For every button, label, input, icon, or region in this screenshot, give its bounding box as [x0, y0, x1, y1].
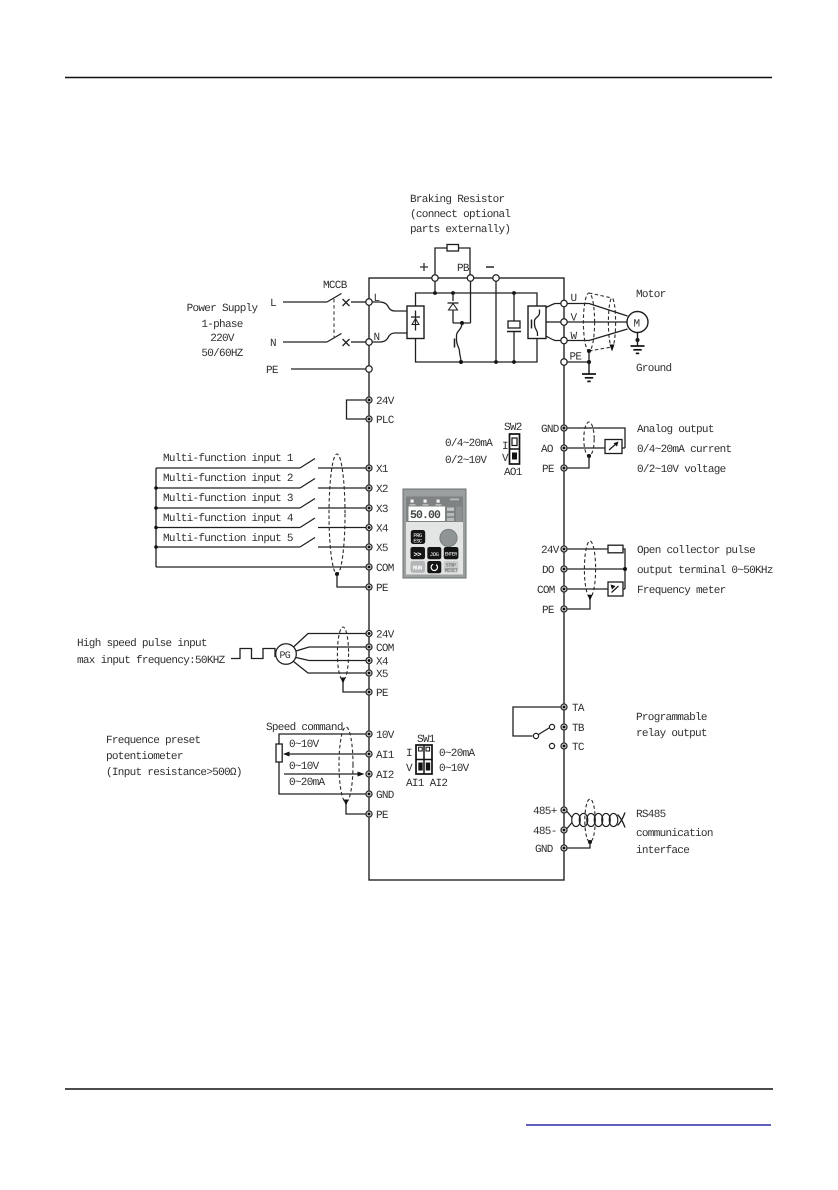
rectifier D1 box	[407, 306, 424, 339]
potentiometer wiper arrow	[283, 752, 290, 757]
wire 24V-PLC jumper	[347, 400, 366, 419]
wire wiper to AI1	[288, 753, 366, 755]
wire input bus	[155, 468, 157, 567]
svg-text:Motor: Motor	[636, 289, 666, 301]
svg-text:24V: 24V	[376, 630, 395, 642]
terminal V	[561, 319, 567, 325]
svg-text:0~10V: 0~10V	[289, 739, 320, 751]
svg-text:TC: TC	[572, 742, 585, 754]
footer rule	[65, 1088, 773, 1090]
inverter U1 IGBT symbol	[532, 310, 540, 337]
svg-text:PG: PG	[280, 651, 291, 662]
wire input 4	[156, 527, 300, 529]
terminal 10V	[366, 731, 372, 737]
wire PE supply	[291, 368, 366, 370]
label analog output note	[637, 424, 732, 476]
capacitor C1	[507, 321, 521, 332]
terminal PB	[467, 275, 473, 281]
svg-text:SW2: SW2	[504, 422, 522, 434]
label open collector note	[637, 545, 773, 597]
label minus	[486, 266, 494, 268]
svg-text:U: U	[571, 293, 577, 305]
svg-text:0/2~10V: 0/2~10V	[445, 455, 487, 467]
wire input 5	[156, 546, 300, 548]
junction AO shield	[587, 454, 591, 458]
wire GND analog out	[568, 428, 626, 448]
switch input 2	[300, 479, 366, 489]
switch input 5	[300, 538, 366, 548]
junction DC- at brake transistor	[459, 360, 463, 364]
terminal DO	[561, 566, 567, 572]
junction input shield	[335, 572, 339, 576]
svg-text:X2: X2	[376, 484, 388, 496]
svg-text:50.00: 50.00	[410, 509, 441, 522]
wire N supply	[283, 341, 327, 343]
wire COM to meter	[568, 588, 609, 590]
junction PE ground	[587, 360, 591, 364]
svg-text:I: I	[406, 748, 412, 760]
terminal AI2	[366, 771, 372, 777]
svg-text:COM: COM	[376, 563, 394, 575]
svg-text:0~20mA: 0~20mA	[289, 777, 326, 789]
junction brake transistor	[460, 321, 464, 325]
wire U to motor	[568, 304, 628, 317]
svg-text:relay output: relay output	[636, 728, 707, 740]
wire COM return	[156, 566, 366, 568]
wire inverter to W	[546, 336, 561, 341]
inverter U1 box	[528, 306, 546, 339]
terminal 24V pulse	[366, 631, 372, 637]
svg-text:220V: 220V	[210, 333, 235, 345]
svg-text:GND: GND	[541, 424, 560, 436]
terminal X4 pulse	[366, 658, 372, 664]
junction bus input 3	[154, 506, 158, 510]
terminal PE digital	[366, 584, 372, 590]
wire PE out	[568, 361, 590, 363]
terminal PE pulse	[366, 689, 372, 695]
label high speed pulse note	[77, 638, 226, 667]
wire shield to PE	[588, 351, 590, 362]
svg-text:TA: TA	[572, 703, 585, 715]
svg-text:0~10V: 0~10V	[439, 763, 470, 775]
shield ellipse speed	[339, 727, 353, 802]
cable shield ellipse 2	[608, 298, 615, 347]
footer hyperlink underline	[526, 1124, 771, 1126]
svg-text:X1: X1	[376, 464, 389, 476]
svg-text:PE: PE	[376, 583, 389, 595]
terminal X5	[366, 544, 372, 550]
relay pole contact	[533, 733, 538, 738]
svg-text:PE: PE	[570, 352, 583, 364]
svg-text:Analog output: Analog output	[637, 424, 714, 436]
wire input 1	[156, 467, 300, 469]
breaker MCCB pole L	[327, 294, 366, 307]
terminal X4	[366, 525, 372, 531]
motor M1	[627, 312, 648, 333]
junction DC+ at + terminal	[433, 291, 437, 295]
switch SW1	[416, 745, 432, 774]
inverter enclosure outline	[369, 278, 564, 880]
svg-text:RS485: RS485	[636, 809, 666, 821]
terminal -	[493, 275, 499, 281]
svg-text:RUN: RUN	[413, 565, 423, 572]
transistor Q1 brake IGBT	[455, 323, 463, 362]
svg-text:RESET: RESET	[445, 567, 458, 573]
switch input 1	[300, 459, 366, 469]
svg-text:V: V	[571, 313, 578, 325]
terminal AO	[561, 445, 567, 451]
terminal GND ao	[561, 425, 567, 431]
encoder PG	[276, 644, 297, 665]
svg-text:Multi-function input 2: Multi-function input 2	[163, 473, 293, 485]
switch input 3	[300, 499, 366, 509]
svg-text:I: I	[502, 441, 508, 453]
wire V to motor	[568, 321, 628, 323]
cable shield ellipse 1	[583, 293, 594, 351]
svg-text:PE: PE	[542, 605, 555, 617]
svg-text:>>: >>	[414, 552, 422, 560]
ground PE symbol	[582, 362, 596, 381]
wire PG to 24V	[294, 634, 366, 648]
relay contact TC	[549, 743, 554, 748]
svg-text:Multi-function input 5: Multi-function input 5	[163, 533, 293, 545]
svg-text:485+: 485+	[533, 806, 557, 818]
wire TA loop	[513, 707, 566, 736]
terminal PE ao	[561, 465, 567, 471]
svg-text:output terminal 0~50KHz: output terminal 0~50KHz	[637, 565, 773, 577]
wire brake node	[453, 322, 471, 324]
header rule	[65, 77, 772, 79]
svg-text:Multi-function input 3: Multi-function input 3	[163, 493, 293, 505]
svg-text:COM: COM	[376, 643, 394, 655]
junction DC- at capacitor	[512, 360, 516, 364]
wire AO to meter	[568, 447, 606, 449]
wire speed shield to PE	[346, 804, 366, 814]
junction 485 shield	[588, 840, 592, 844]
speed shield arrow	[344, 800, 349, 807]
svg-text:X4: X4	[376, 524, 389, 536]
terminal COM	[366, 564, 372, 570]
terminal N	[366, 339, 372, 345]
svg-text:L: L	[374, 293, 380, 305]
shield drain arrow	[610, 345, 615, 352]
relay lever	[539, 728, 550, 735]
svg-text:interface: interface	[636, 845, 689, 857]
svg-text:ESC: ESC	[413, 538, 423, 545]
svg-text:1-phase: 1-phase	[201, 319, 242, 331]
switch input 4	[300, 518, 366, 528]
svg-text:0/2~10V voltage: 0/2~10V voltage	[637, 464, 726, 476]
svg-text:Multi-function input 4: Multi-function input 4	[163, 513, 294, 525]
node DC- bus	[416, 339, 538, 363]
svg-text:24V: 24V	[541, 545, 560, 557]
svg-text:Frequence preset: Frequence preset	[106, 735, 201, 747]
svg-text:X3: X3	[376, 504, 388, 516]
braking resistor RB loop wire	[435, 248, 470, 277]
junction bus input 2	[154, 486, 158, 490]
switch SW2	[510, 434, 520, 464]
terminal TB	[561, 724, 567, 730]
wire 24V collector	[568, 548, 609, 550]
breaker MCCB tie bar	[333, 299, 335, 337]
terminal PE analog	[366, 811, 372, 817]
svg-text:M: M	[634, 319, 640, 331]
svg-text:0~20mA: 0~20mA	[439, 748, 476, 760]
wire input 3	[156, 507, 300, 509]
svg-text:V: V	[406, 763, 413, 775]
cable shield cone bottom	[589, 347, 612, 351]
svg-text:0/4~20mA current: 0/4~20mA current	[637, 444, 732, 456]
terminal GND analog	[366, 791, 372, 797]
svg-text:N: N	[270, 338, 276, 350]
meter AO	[605, 440, 625, 454]
shield ellipse 485	[585, 799, 595, 842]
terminal 485+	[561, 807, 567, 813]
svg-text:AO: AO	[541, 444, 554, 456]
label +	[420, 263, 428, 271]
wire PB terminal drop	[470, 277, 472, 323]
terminal X3	[366, 505, 372, 511]
terminal COM do	[561, 586, 567, 592]
braking resistor RB	[447, 245, 459, 252]
svg-text:potentiometer: potentiometer	[106, 751, 183, 763]
power supply note text	[187, 303, 259, 360]
svg-text:10V: 10V	[376, 730, 395, 742]
svg-text:X5: X5	[376, 669, 388, 681]
capacitor C1 lead top	[513, 293, 515, 321]
wire PG to X5	[294, 662, 366, 674]
shield ellipse collector	[584, 541, 595, 597]
wire 485 shield to GND	[568, 842, 591, 848]
terminal TA	[561, 704, 567, 710]
terminal AI1	[366, 751, 372, 757]
terminal W	[561, 337, 567, 343]
svg-text:AI2: AI2	[376, 770, 394, 782]
label RS485 note	[636, 809, 713, 857]
wire PG to COM	[296, 647, 366, 651]
svg-text:JOG: JOG	[430, 551, 439, 558]
terminal TC	[561, 743, 567, 749]
svg-text:PE: PE	[376, 688, 389, 700]
svg-text:AI1: AI1	[376, 750, 395, 762]
svg-text:Speed command: Speed command	[266, 722, 343, 734]
terminal L	[366, 299, 372, 305]
potentiometer RP	[276, 744, 282, 762]
wire W to motor	[568, 329, 628, 341]
svg-text:X4: X4	[376, 657, 389, 669]
terminal GND 485	[561, 845, 567, 851]
collector shield arrow	[588, 595, 593, 601]
terminal X5 pulse	[366, 670, 372, 676]
wire L hook to rectifier	[372, 302, 407, 311]
svg-text:ENTER: ENTER	[445, 552, 458, 558]
terminal U	[561, 300, 567, 306]
wire inverter to U	[546, 304, 561, 308]
svg-text:PE: PE	[266, 365, 279, 377]
svg-text:Braking Resistor: Braking Resistor	[410, 194, 505, 206]
svg-text:N: N	[374, 332, 380, 344]
svg-text:Programmable: Programmable	[636, 712, 707, 724]
wire input 2	[156, 487, 300, 489]
terminal PE out	[561, 359, 567, 365]
terminal X1	[366, 465, 372, 471]
svg-text:COM: COM	[537, 585, 555, 597]
svg-text:AI1 AI2: AI1 AI2	[406, 778, 447, 790]
terminal 24V do	[561, 546, 567, 552]
junction motor ground	[636, 338, 640, 342]
svg-text:X5: X5	[376, 543, 388, 555]
wire AI2	[284, 773, 359, 775]
wire input shield to PE	[337, 574, 366, 587]
pulse waveform	[231, 649, 275, 659]
svg-text:PE: PE	[542, 464, 555, 476]
capacitor C1 lead bottom	[513, 332, 515, 363]
svg-text:PE: PE	[376, 810, 389, 822]
wire - terminal to DC-	[495, 277, 497, 362]
svg-text:0~10V: 0~10V	[289, 761, 320, 773]
svg-text:Power Supply: Power Supply	[187, 303, 259, 315]
label relay note	[636, 712, 707, 740]
wire + terminal to DC+	[434, 277, 436, 293]
wire pot to GND	[279, 762, 366, 794]
svg-text:50/60HZ: 50/60HZ	[201, 348, 243, 360]
terminal 24V	[366, 397, 372, 403]
svg-text:(connect optional: (connect optional	[410, 209, 510, 221]
svg-text:DO: DO	[542, 565, 555, 577]
svg-text:GND: GND	[535, 844, 554, 856]
AI2 arrow	[358, 772, 365, 777]
resistor pull-up	[608, 545, 623, 553]
junction DC- at - terminal	[494, 360, 498, 364]
svg-text:GND: GND	[376, 790, 395, 802]
braking resistor note text	[410, 194, 510, 236]
brake diode D2	[448, 293, 459, 323]
svg-text:PLC: PLC	[376, 415, 395, 427]
node DC+ bus	[416, 293, 538, 306]
junction bus input 5	[154, 545, 158, 549]
terminal PLC	[366, 416, 372, 422]
wire resistor to DO node	[623, 549, 625, 589]
wire AO shield to PE	[568, 456, 590, 468]
terminal X2	[366, 485, 372, 491]
wire collector shield to PE	[568, 599, 591, 609]
wire N hook to rectifier	[372, 333, 407, 342]
svg-text:(Input resistance>500Ω): (Input resistance>500Ω)	[106, 767, 242, 779]
twisted pair 485	[567, 811, 626, 829]
junction DC+ at brake diode	[451, 291, 455, 295]
junction DO node	[623, 567, 627, 571]
meter frequency	[608, 582, 625, 596]
wire 10V to pot	[279, 734, 366, 744]
svg-text:Frequency meter: Frequency meter	[637, 585, 726, 597]
junction shield to PE	[587, 349, 591, 353]
keypad panel	[403, 489, 466, 578]
svg-text:MCCB: MCCB	[323, 280, 348, 292]
breaker MCCB pole N	[327, 334, 366, 347]
rectifier D1 diode symbol	[411, 311, 420, 331]
shield ellipse PG	[337, 627, 348, 680]
svg-text:Open collector pulse: Open collector pulse	[637, 545, 755, 557]
terminal COM pulse	[366, 644, 372, 650]
relay contact TB	[549, 724, 554, 729]
svg-text:Ground: Ground	[636, 363, 672, 375]
wire PG shield to PE	[343, 682, 366, 692]
wire PG to X4	[296, 658, 366, 661]
junction bus input 4	[154, 526, 158, 530]
wire DO	[568, 568, 626, 570]
svg-text:parts externally): parts externally)	[410, 224, 510, 236]
label frequence preset note	[106, 735, 242, 779]
svg-text:PB: PB	[457, 263, 470, 275]
PG shield arrow	[341, 678, 346, 685]
svg-text:max input frequency:50KHZ: max input frequency:50KHZ	[77, 655, 226, 667]
svg-text:L: L	[270, 298, 276, 310]
svg-text:V: V	[502, 453, 509, 465]
svg-text:24V: 24V	[376, 396, 395, 408]
wire inverter to V	[546, 321, 561, 323]
cable shield cone top	[589, 293, 612, 298]
shield ellipse inputs	[329, 454, 345, 574]
wire L supply	[283, 301, 327, 303]
svg-text:0/4~20mA: 0/4~20mA	[445, 438, 493, 450]
svg-text:High speed pulse input: High speed pulse input	[77, 638, 207, 650]
svg-text:communication: communication	[636, 828, 713, 840]
terminal 485-	[561, 827, 567, 833]
terminal +	[432, 275, 438, 281]
svg-text:TB: TB	[572, 723, 585, 735]
shield ellipse AO	[584, 422, 594, 456]
svg-text:485-: 485-	[533, 826, 557, 838]
terminal PE do	[561, 606, 567, 612]
svg-text:AO1: AO1	[504, 467, 523, 479]
svg-text:Multi-function input 1: Multi-function input 1	[163, 453, 294, 465]
terminal PE in	[366, 366, 372, 372]
svg-text:W: W	[571, 331, 578, 343]
ground motor symbol	[631, 333, 645, 354]
junction DC+ at capacitor	[512, 291, 516, 295]
